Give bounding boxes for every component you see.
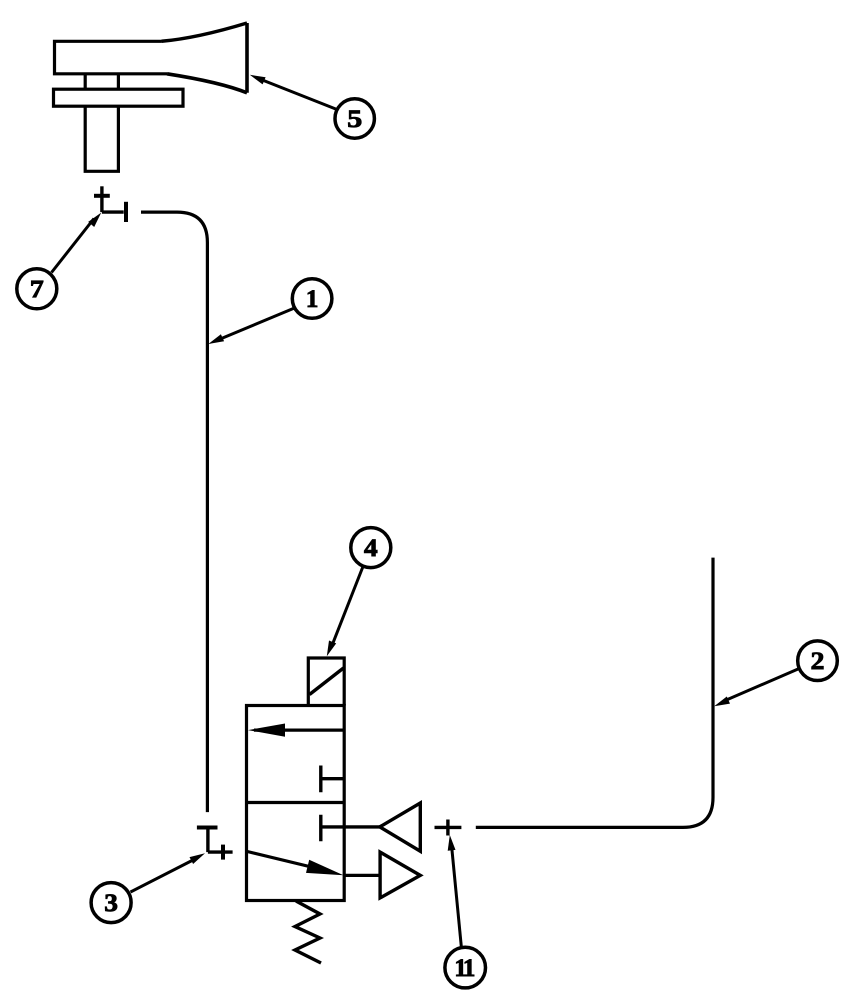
callout 4 circle <box>351 528 391 568</box>
air horn stem <box>85 106 118 171</box>
fitting 3 horizontal stub <box>208 850 233 853</box>
fitting 7 cross bar <box>94 194 110 198</box>
fitting 7 horizontal stub <box>102 210 124 213</box>
fitting 11 cross horizontal <box>435 826 462 829</box>
valve lower port line to exhaust <box>343 874 379 877</box>
callout 3 leader arrow <box>131 859 197 893</box>
callout 1 leader arrow <box>219 308 295 340</box>
valve flow arrow upper section <box>254 728 344 731</box>
fitting 11 cross vertical <box>446 820 449 836</box>
callout 5 circle <box>335 99 374 138</box>
air horn neck left line <box>84 74 87 90</box>
exhaust triangle upper (points left) <box>380 803 421 851</box>
callout 11 leader arrow <box>452 845 462 949</box>
callout 4 leader arrow <box>331 567 363 648</box>
air horn neck right line <box>117 74 120 90</box>
valve blocked port T lower <box>321 815 380 841</box>
exhaust triangle lower (points right) <box>380 852 420 898</box>
callout 2 leader arrow <box>724 668 800 701</box>
callout 3 circle <box>91 883 131 923</box>
fitting 7 cross vertical <box>100 186 103 212</box>
solenoid diagonal <box>310 668 344 695</box>
valve body <box>247 706 345 901</box>
line 1 hose from fitting 7 to valve <box>141 212 207 812</box>
fitting 3 tee bar <box>197 826 218 830</box>
air horn bell top curve <box>162 23 248 41</box>
callout 5 leader arrow <box>256 78 337 110</box>
return spring <box>295 901 321 963</box>
callout 11 circle <box>445 947 486 988</box>
valve blocked port T upper <box>321 766 344 793</box>
valve body divider <box>247 801 345 804</box>
fitting 3 stem <box>206 828 209 853</box>
callout 7 leader arrow <box>52 219 95 273</box>
air horn mounting flange <box>54 89 184 106</box>
fitting 3 cross tick <box>221 845 225 860</box>
line 2 hose <box>476 558 713 828</box>
air horn item 5 body and bell <box>55 41 168 74</box>
callout 1 circle <box>292 279 332 319</box>
fitting 7 tick <box>124 202 128 222</box>
solenoid actuator item 4 box <box>308 658 344 706</box>
air horn bell right edge <box>245 23 249 93</box>
callout 7 circle <box>17 269 57 309</box>
valve flow diagonal arrow lower section <box>247 852 330 872</box>
air horn bell bottom curve <box>167 74 247 93</box>
callout 2 circle <box>798 641 838 681</box>
